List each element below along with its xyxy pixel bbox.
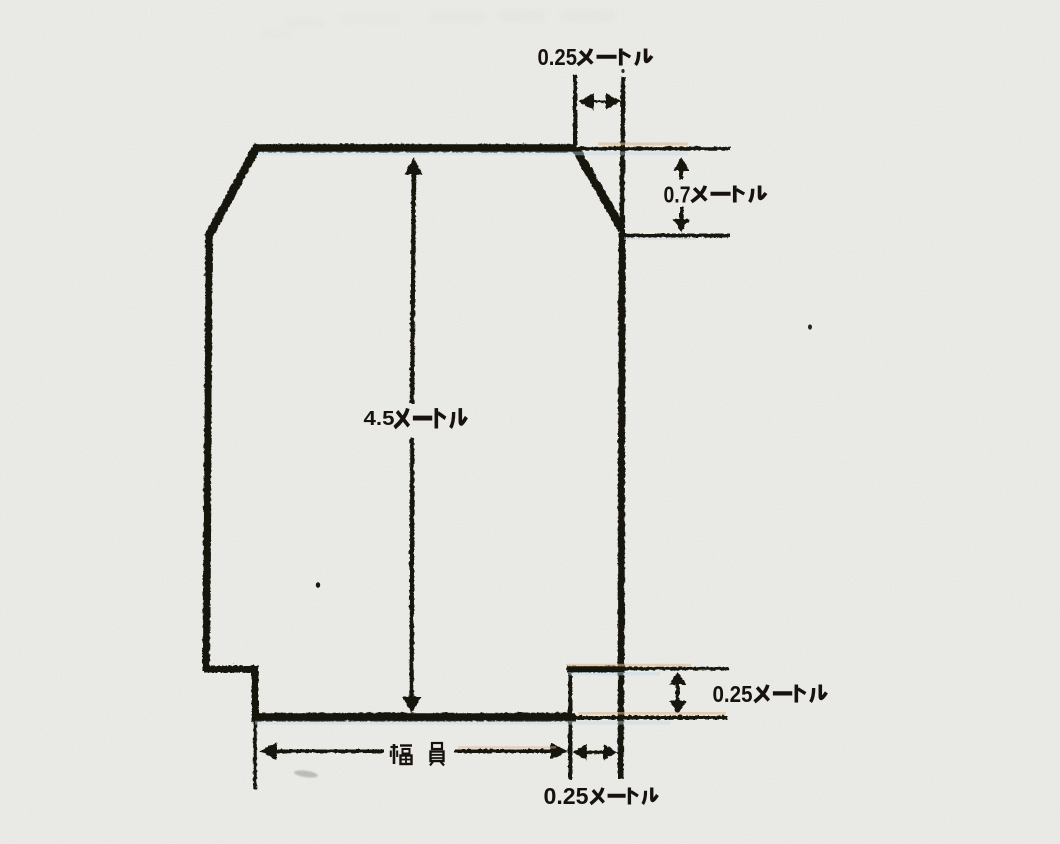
dust speck near centre left [316, 582, 320, 588]
bottom-right step horizontal edge [566, 665, 624, 672]
bottom 0.25 metre label katakana [590, 788, 657, 805]
width dimension left arrowhead [259, 742, 277, 759]
4.5m dimension up arrowhead [404, 157, 422, 174]
4.5 metre label katakana [395, 408, 467, 428]
top-right slant edge [576, 149, 622, 229]
bottom 0.25m dimension left arrowhead [572, 744, 586, 760]
bottom-left step horizontal edge [203, 665, 258, 672]
colour fringe below bottom-right step line [568, 672, 660, 675]
top 0.25m dimension left arrowhead [578, 93, 594, 110]
width dimension right shaft [454, 749, 556, 753]
0.7m dimension up arrowhead [673, 157, 689, 171]
top-left chamfer edge [208, 144, 258, 236]
right 0.25 metre label katakana [755, 685, 827, 703]
colour fringe below bottom edge [255, 721, 670, 725]
top-left dimension extension line [573, 74, 577, 148]
4.5m dimension lower shaft [409, 437, 414, 698]
kanji haba (width) character [391, 744, 413, 764]
colour fringe above bottom-right step line [566, 664, 691, 667]
0.7m dimension down arrowhead [673, 219, 690, 232]
svg-text:0.25: 0.25 [713, 681, 753, 707]
right edge [621, 232, 622, 670]
bottom 0.25m dimension right arrowhead [603, 744, 617, 760]
bottom edge [251, 712, 575, 721]
colour fringe above width-dimension right shaft [458, 746, 556, 748]
kanji in (member) character [430, 743, 444, 766]
right 0.25m dimension up arrowhead [669, 672, 686, 685]
colour fringe below top edge [258, 152, 688, 156]
right edge chamfer span [619, 148, 625, 232]
pencil smudge lower left [294, 769, 319, 779]
right edge lower extension [617, 670, 624, 778]
svg-text:0.25: 0.25 [544, 783, 589, 809]
colour fringe above top reference line [598, 143, 688, 146]
svg-text:0.25: 0.25 [538, 44, 578, 70]
top edge of gauge outline [253, 143, 576, 152]
left edge [206, 233, 209, 670]
width dimension left shaft [273, 749, 383, 753]
0.7 metre label katakana [692, 186, 766, 203]
thin reference line right of step [624, 666, 728, 670]
width dimension right arrowhead [550, 742, 568, 759]
right 0.25m dimension shaft [675, 682, 679, 701]
svg-text:0.7: 0.7 [664, 182, 691, 208]
stray ink dot above right extension line [621, 69, 624, 73]
colour fringe below chamfer reference line [624, 237, 696, 240]
dust speck upper right [808, 324, 812, 329]
bottom-right step vertical extension line [568, 666, 572, 779]
0.7m dimension lower shaft [679, 206, 683, 220]
svg-text:4.5: 4.5 [364, 408, 395, 430]
4.5m dimension down arrowhead [402, 696, 421, 713]
thin reference line right of bottom edge [575, 715, 727, 719]
bottom-left dimension extension line [253, 719, 257, 789]
faint bleed-through marks at top of scan [262, 10, 615, 38]
thin reference line at chamfer bottom [623, 233, 729, 237]
right 0.25m dimension down arrowhead [668, 700, 686, 713]
colour fringe above right part of bottom edge [578, 712, 726, 715]
top 0.25m dimension right arrowhead [605, 92, 621, 109]
top 0.25m dimension shaft [589, 100, 607, 103]
right edge upper extension [620, 76, 625, 148]
top 0.25 metre label katakana [578, 49, 652, 66]
thin reference line right of top edge [576, 146, 730, 150]
bottom-left step vertical edge [251, 666, 258, 719]
0.7m dimension upper shaft [679, 167, 683, 179]
4.5m dimension upper shaft [412, 171, 414, 403]
bottom 0.25m dimension shaft [584, 750, 605, 753]
